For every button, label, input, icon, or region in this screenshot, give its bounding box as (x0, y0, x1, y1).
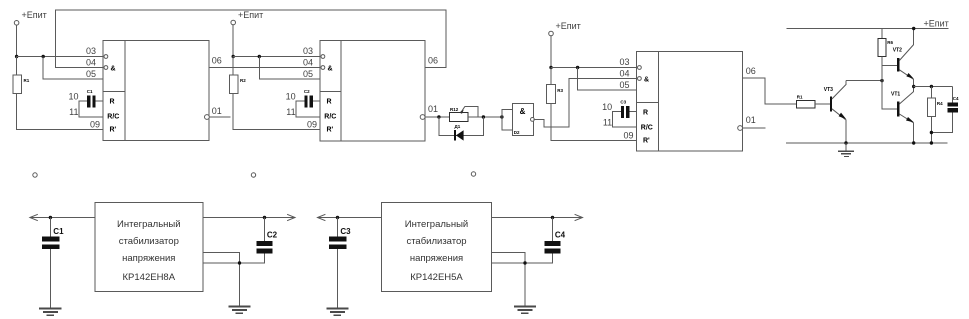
svg-text:01: 01 (212, 106, 222, 116)
svg-text:R': R' (643, 138, 650, 145)
wire: output node horizontal (914, 86, 953, 88)
svg-text:R: R (643, 110, 648, 117)
wire: C1 right plate to pin 10 (R) (96, 100, 103, 102)
DD1 input bubble pin 04 (104, 66, 108, 70)
capacitor C4 output (947, 87, 959, 113)
wire: regulator2 output line with right arrow (492, 214, 583, 220)
node junction C1 tap (49, 216, 52, 219)
capacitor C1 electrolytic (42, 218, 64, 250)
DD3 input bubble pin 04 (638, 77, 642, 81)
svg-text:C4: C4 (953, 96, 959, 101)
regulator block KR142EN5A (382, 203, 492, 292)
svg-text:C2: C2 (304, 89, 310, 94)
capacitor C2 (304, 89, 313, 107)
svg-text:R: R (110, 99, 115, 106)
node junction VT1 emitter on rail (912, 141, 915, 144)
ground symbol output stage (838, 143, 854, 156)
node junction output emitter-collector (912, 85, 915, 88)
wire: regulator1 gnd pin A (203, 253, 240, 307)
node junction VT3 emitter on rail (844, 141, 847, 144)
wire: branch to pin 05 of DD3 (578, 68, 637, 91)
svg-text:10: 10 (68, 92, 78, 102)
node junction gate input bracket (500, 115, 503, 118)
wire: R1 bottom to pin 09 line of DD1 (17, 94, 103, 130)
node junction VT3 collector (880, 79, 883, 82)
wire: regulator1 gnd pin B to C2 bottom (203, 254, 265, 263)
transistor VT2 (893, 29, 914, 87)
trimmer resistor R12 (450, 107, 468, 121)
svg-text:03: 03 (86, 46, 96, 56)
svg-text:03: 03 (619, 57, 629, 67)
wire: regulator2 input line with left arrow (318, 214, 382, 220)
node junction R4 top (930, 85, 933, 88)
wire: gate output to DD3 pin 04 (534, 79, 637, 127)
R12 wiper arm shorted to right terminal (459, 106, 478, 117)
capacitor C3 (620, 100, 629, 118)
node junction VT2 collector on rail (912, 27, 915, 30)
svg-text:VT2: VT2 (893, 48, 902, 54)
wire: DD2 pin 01 to R12 network (425, 116, 450, 118)
wire: +Epit1 down to node (16, 25, 18, 56)
svg-text:+Епит: +Епит (924, 19, 949, 29)
svg-text:06: 06 (212, 55, 222, 65)
svg-text:стабилизатор: стабилизатор (119, 236, 179, 247)
wire: C3 left bracket to pin 11 of DD3 (613, 112, 637, 128)
capacitor C4 electrolytic (544, 218, 565, 254)
svg-text:Интегральный: Интегральный (117, 219, 181, 230)
svg-text:R1: R1 (24, 78, 30, 83)
wire: R12 right side to gate input node (468, 116, 502, 118)
wire: C1 left plate bracket to pin 11 (R/C) (79, 101, 103, 117)
svg-text:&: & (111, 65, 116, 72)
wire: R2 bottom to pin 09 line of DD2 (233, 94, 320, 130)
wire: pin 03 line of DD1 (17, 56, 103, 58)
svg-text:10: 10 (286, 92, 296, 102)
svg-text:C3: C3 (620, 100, 626, 105)
logic gate D2 body (512, 104, 533, 136)
gate D2 output bubble (531, 118, 535, 122)
svg-text:06: 06 (746, 66, 756, 76)
node junction for 05 branch (42, 55, 45, 58)
capacitor C2 electrolytic (256, 218, 277, 254)
wire: node branch to VT2 base (882, 64, 897, 66)
svg-text:напряжения: напряжения (410, 253, 463, 264)
svg-text:05: 05 (619, 80, 629, 90)
ground symbol reg2 (514, 306, 536, 313)
IC DD2 body (320, 41, 425, 142)
resistor R6 (878, 29, 894, 57)
svg-text:C1: C1 (53, 227, 64, 236)
svg-text:R4: R4 (937, 101, 943, 106)
wire: C3 down to ground (337, 249, 339, 307)
terminal circle A (33, 173, 37, 177)
wire: regulator1 output line with right arrow (203, 214, 295, 220)
resistor R1 (13, 57, 30, 94)
wire: regulator1 input line with left arrow (30, 214, 95, 220)
wire: regulator2 gnd pin A (492, 253, 526, 307)
capacitor C1 (87, 89, 96, 107)
transistor VT3 (824, 81, 847, 143)
DD2 output bubble pin 01 (420, 115, 425, 120)
svg-text:11: 11 (603, 117, 612, 127)
resistor R1 horizontal (base resistor) (796, 95, 815, 109)
DD3 input bubble pin 03 (638, 66, 642, 70)
resistor R3 (547, 68, 564, 104)
node junction R4 on rail (930, 141, 933, 144)
svg-text:C4: C4 (555, 230, 566, 239)
svg-text:стабилизатор: стабилизатор (406, 236, 466, 247)
svg-text:Интегральный: Интегральный (405, 219, 469, 230)
wire: R6 bottom node down to VT1 base (882, 57, 897, 109)
svg-text:10: 10 (602, 102, 612, 112)
node junction DD3 pin03 rail (549, 66, 552, 69)
svg-text:04: 04 (619, 68, 629, 78)
node junction gnd merge reg1 (238, 261, 241, 264)
svg-text:R12: R12 (450, 107, 459, 112)
svg-text:R1: R1 (797, 95, 803, 100)
svg-text:&: & (520, 107, 526, 116)
svg-text:06: 06 (428, 55, 438, 65)
DD1 output bubble pin 01 (205, 115, 210, 120)
svg-text:R2: R2 (240, 78, 246, 83)
svg-text:C2: C2 (267, 230, 278, 239)
transistor VT1 (891, 87, 914, 144)
svg-text:11: 11 (286, 107, 295, 117)
node junction C4/R4 merge (930, 131, 933, 134)
IC DD3 body (637, 52, 743, 152)
DD1 input bubble pin 03 (104, 55, 108, 59)
svg-text:КР142ЕН5А: КР142ЕН5А (410, 272, 463, 283)
svg-text:+Епит: +Епит (22, 10, 47, 20)
svg-text:04: 04 (303, 57, 313, 67)
svg-text:&: & (644, 76, 649, 83)
svg-text:01: 01 (746, 115, 756, 125)
node junction 05 branch DD3 (576, 66, 579, 69)
svg-text:+Епит: +Епит (238, 10, 263, 20)
power terminal +Epit 3 (549, 21, 581, 36)
node junction C2 tap (263, 216, 266, 219)
svg-text:&: & (328, 65, 333, 72)
terminal circle C (471, 172, 475, 176)
svg-text:09: 09 (90, 119, 100, 129)
node junction on pin03 rail (15, 55, 18, 58)
svg-text:R: R (327, 99, 332, 106)
wire: DD1 out 06 to DD2 pin 04 (209, 67, 320, 69)
wire: pin 03 line of DD3 (551, 67, 637, 69)
node junction C3 tap (336, 216, 339, 219)
node junction gnd merge reg2 (523, 261, 526, 264)
svg-text:04: 04 (86, 57, 96, 67)
regulator block KR142EN8A (95, 203, 203, 292)
svg-text:R3: R3 (557, 88, 563, 93)
wire: R3 bottom to pin 09 line of DD3 (551, 104, 637, 141)
node junction 05 branch DD2 (258, 55, 261, 58)
ground symbol C1 (39, 308, 61, 315)
svg-text:09: 09 (623, 130, 633, 140)
capacitor C3 electrolytic (329, 218, 351, 250)
DD2 input bubble pin 03 (321, 55, 325, 59)
svg-text:D2: D2 (514, 130, 520, 135)
wire: R4 bottom to rail (930, 117, 932, 143)
diode VD1 (454, 124, 464, 141)
node junction diode left branch (437, 115, 440, 118)
DD3 output bubble pin 01 (738, 126, 743, 131)
svg-text:VT1: VT1 (891, 92, 900, 98)
node junction DD2 pin03 rail (232, 55, 235, 58)
svg-text:05: 05 (86, 69, 96, 79)
resistor R4 (927, 87, 943, 117)
wire: pin 03 line of DD2 (233, 56, 320, 58)
svg-text:R/C: R/C (641, 125, 653, 132)
wire: branch to pin 05 of DD2 (259, 57, 320, 80)
node junction diode right branch (482, 115, 485, 118)
wire: DD3 pin 01 stub (743, 127, 766, 129)
wire: C4 bottom to R4 line (931, 112, 952, 132)
wire: +Epit2 down to node (232, 25, 234, 57)
svg-text:R6: R6 (887, 40, 893, 45)
power rail +Epit right (786, 19, 948, 29)
svg-text:11: 11 (69, 107, 78, 117)
svg-text:R': R' (327, 127, 334, 134)
wire: VT3 collector to R6 node (846, 80, 882, 82)
wire: diode bypass loop (439, 117, 484, 135)
wire: feedback top rail from DD2 out 06 to DD1 pin 04 (55, 10, 446, 68)
wire: C1 down to ground (49, 249, 51, 307)
wire: DD3 out 06 to R1h (743, 78, 797, 104)
wire: C2 left bracket to pin 11 of DD2 (296, 101, 320, 117)
svg-text:C3: C3 (340, 227, 351, 236)
svg-text:R/C: R/C (324, 114, 336, 121)
svg-text:R': R' (110, 127, 117, 134)
wire: regulator2 gnd pin B to C4 bottom (492, 254, 553, 263)
terminal circle B (251, 173, 255, 177)
svg-text:09: 09 (307, 119, 317, 129)
svg-text:+Епит: +Епит (556, 21, 581, 31)
DD2 input bubble pin 04 (321, 66, 325, 70)
wire: +Epit3 down to node (550, 36, 552, 68)
svg-text:05: 05 (303, 69, 313, 79)
ground symbol reg1 (228, 306, 250, 313)
svg-text:КР142ЕН8А: КР142ЕН8А (123, 272, 176, 283)
wire: C3 right plate to pin 10 of DD3 (629, 111, 636, 113)
wire: gate input bracket (502, 109, 512, 130)
wire: C2 right plate to pin 10 of DD2 (313, 100, 320, 102)
node junction C4 tap (551, 216, 554, 219)
svg-text:03: 03 (303, 46, 313, 56)
ground rail bottom (786, 142, 948, 144)
svg-text:напряжения: напряжения (122, 253, 175, 264)
wire: branch to pin 05 of DD1 (43, 57, 103, 80)
wire: R1h to VT3 base (815, 103, 830, 105)
svg-text:R/C: R/C (107, 114, 119, 121)
power terminal +Epit 2 (231, 10, 263, 25)
svg-text:VT3: VT3 (824, 87, 833, 93)
resistor R2 (229, 57, 246, 94)
svg-text:01: 01 (428, 104, 438, 114)
svg-text:C1: C1 (87, 89, 93, 94)
svg-text:Д1: Д1 (455, 124, 461, 129)
ground symbol C3 (326, 308, 348, 315)
IC DD1 body (103, 41, 209, 141)
wire: DD1 pin 01 stub (209, 116, 230, 118)
power terminal +Epit 1 (14, 10, 46, 25)
